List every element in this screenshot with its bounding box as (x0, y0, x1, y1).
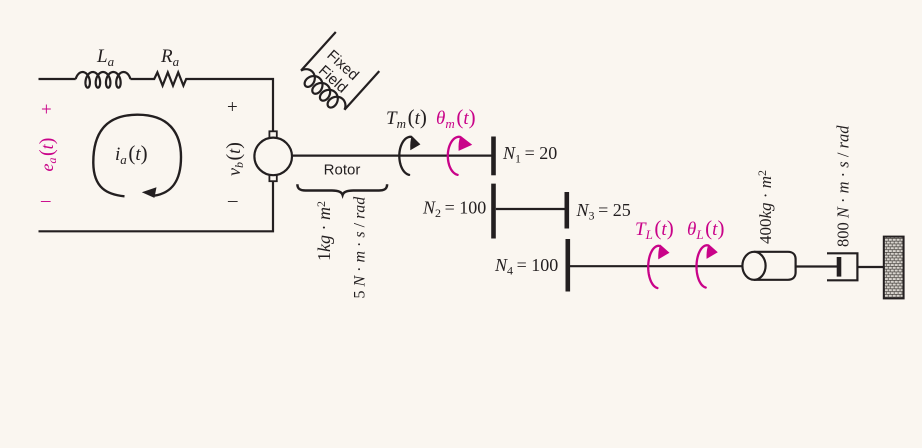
shaft damper to wall (857, 266, 884, 268)
gear N4 (565, 239, 570, 292)
svg-text:–: – (40, 190, 51, 211)
svg-text:400kg · m2: 400kg · m2 (755, 170, 775, 244)
shaft 2 (N2 to N3) (496, 208, 565, 210)
svg-text:+: + (227, 97, 238, 118)
gear N2 (491, 184, 496, 239)
label Fixed Field (312, 47, 362, 97)
damper piston (837, 257, 842, 277)
wire bottom (39, 182, 274, 232)
svg-text:θm (t): θm (t) (436, 105, 476, 131)
svg-text:N1 = 20: N1 = 20 (502, 143, 557, 166)
svg-text:N4 = 100: N4 = 100 (494, 255, 558, 278)
svg-text:Tm (t): Tm (t) (386, 105, 427, 131)
rotation arrow TL (magenta) (648, 246, 659, 288)
svg-text:–: – (227, 190, 238, 211)
svg-text:N3 = 25: N3 = 25 (576, 200, 631, 223)
wire Ra to top-right corner and down to motor (189, 79, 273, 132)
load inertia cylinder left ellipse (742, 252, 765, 280)
gear N3 (564, 192, 569, 229)
svg-text:5 N · m · s / rad: 5 N · m · s / rad (352, 196, 369, 299)
wall block (884, 237, 904, 299)
svg-text:ia (t): ia (t) (115, 141, 148, 167)
rotation arrow theta_m (magenta) (448, 137, 460, 175)
svg-text:vb (t): vb (t) (223, 142, 246, 176)
svg-text:+: + (41, 100, 52, 121)
shaft cylinder to damper piston (796, 265, 839, 267)
wire top-left segment (39, 78, 76, 80)
current loop arrow ia (93, 115, 181, 197)
rotation arrow Tm (399, 137, 411, 175)
svg-text:1kg · m2: 1kg · m2 (314, 201, 334, 261)
motor armature circle (254, 138, 292, 176)
svg-text:N2 = 100: N2 = 100 (422, 198, 486, 221)
inductor La (76, 72, 131, 88)
svg-text:ea (t): ea (t) (36, 138, 59, 172)
resistor Ra (152, 72, 190, 85)
svg-text:800 N · m · s / rad: 800 N · m · s / rad (834, 125, 853, 247)
shaft 3 (N4 to load) (570, 265, 743, 267)
svg-text:TL (t): TL (t) (635, 216, 674, 242)
svg-text:θL (t): θL (t) (687, 216, 724, 242)
fixed field coil with leads (295, 32, 379, 116)
wire between La and Ra (130, 78, 151, 80)
rotation arrow theta_L (magenta) (697, 245, 708, 287)
load inertia cylinder body (754, 252, 796, 280)
motor: bottom brush square (269, 175, 276, 182)
underbrace rotor (297, 184, 387, 195)
damper housing (open left) (827, 253, 857, 280)
gear N1 (491, 137, 496, 176)
svg-text:Rotor: Rotor (324, 161, 361, 178)
shaft 1 (motor to gear N1) (291, 155, 491, 157)
motor: top brush square (269, 131, 276, 138)
